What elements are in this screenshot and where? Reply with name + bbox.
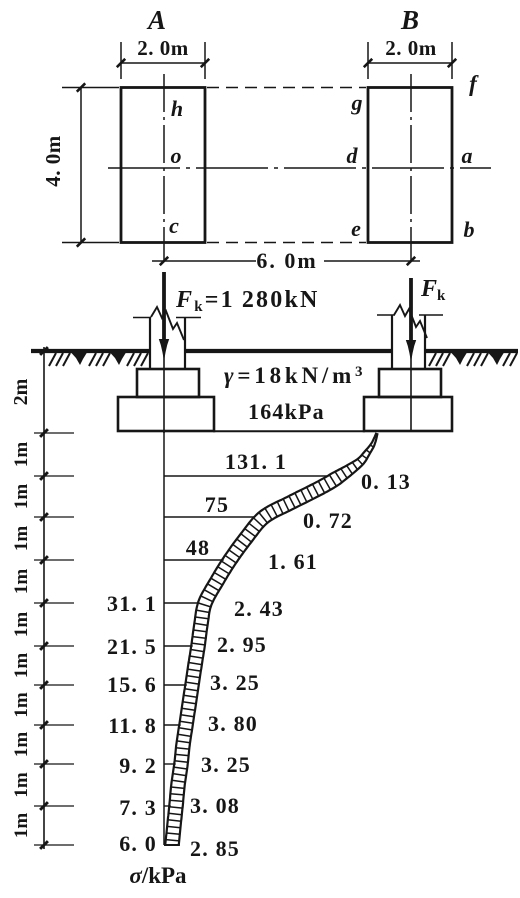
svg-text:1m: 1m (11, 612, 32, 638)
svg-text:a: a (462, 143, 473, 168)
svg-text:h: h (171, 96, 183, 121)
svg-text:e: e (351, 216, 361, 241)
svg-text:σ/kPa: σ/kPa (129, 863, 187, 888)
svg-text:1m: 1m (11, 484, 32, 510)
svg-text:131. 1: 131. 1 (225, 449, 287, 474)
svg-text:2. 0m: 2. 0m (385, 36, 437, 60)
svg-text:1m: 1m (11, 442, 32, 468)
svg-text:1m: 1m (11, 732, 32, 758)
svg-text:2. 43: 2. 43 (234, 596, 284, 621)
svg-text:o: o (171, 143, 182, 168)
svg-text:7. 3: 7. 3 (119, 795, 157, 820)
svg-text:3. 25: 3. 25 (210, 670, 260, 695)
svg-text:γ=18kN/m3: γ=18kN/m3 (224, 363, 366, 388)
svg-text:6. 0: 6. 0 (119, 831, 157, 856)
svg-text:2m: 2m (10, 378, 32, 405)
svg-text:1m: 1m (11, 569, 32, 595)
svg-text:3. 80: 3. 80 (208, 711, 258, 736)
svg-text:A: A (146, 5, 166, 35)
svg-text:3. 08: 3. 08 (190, 793, 240, 818)
svg-text:31. 1: 31. 1 (107, 591, 157, 616)
svg-text:1m: 1m (11, 653, 32, 679)
svg-text:2. 0m: 2. 0m (137, 36, 189, 60)
svg-text:b: b (464, 217, 475, 242)
svg-text:g: g (351, 90, 363, 115)
svg-text:1m: 1m (11, 526, 32, 552)
svg-text:2. 95: 2. 95 (217, 632, 267, 657)
svg-text:75: 75 (205, 492, 229, 517)
svg-text:21. 5: 21. 5 (107, 634, 157, 659)
svg-text:0. 13: 0. 13 (361, 469, 411, 494)
svg-text:164kPa: 164kPa (248, 399, 325, 424)
svg-text:1. 61: 1. 61 (268, 549, 318, 574)
svg-text:9. 2: 9. 2 (119, 753, 157, 778)
svg-text:0. 72: 0. 72 (303, 508, 353, 533)
svg-text:d: d (347, 143, 359, 168)
svg-text:B: B (400, 5, 419, 35)
svg-text:c: c (169, 213, 179, 238)
svg-text:15. 6: 15. 6 (107, 672, 157, 697)
svg-text:1m: 1m (11, 772, 32, 798)
svg-text:11. 8: 11. 8 (108, 713, 157, 738)
svg-text:1m: 1m (11, 692, 32, 718)
svg-text:4. 0m: 4. 0m (41, 135, 65, 187)
svg-text:3. 25: 3. 25 (201, 752, 251, 777)
svg-text:1m: 1m (11, 813, 32, 839)
svg-text:2. 85: 2. 85 (190, 836, 240, 861)
svg-text:6. 0m: 6. 0m (256, 248, 317, 273)
svg-text:48: 48 (186, 535, 210, 560)
